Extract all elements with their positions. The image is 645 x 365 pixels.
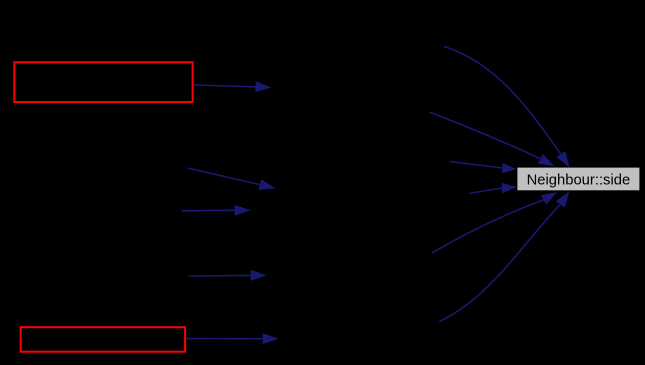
edge R5 (bottom inner curve into node bottom)	[432, 192, 557, 253]
edge L1: red box 1 -> middle node	[194, 81, 272, 92]
svg-text:Neighbour::side: Neighbour::side	[527, 172, 631, 188]
edge L2	[188, 168, 276, 190]
node box (red, truncated caller, bottom-left)	[21, 327, 185, 352]
edge R4 (short straight into node left edge)	[469, 183, 517, 194]
node Neighbour::side (grey filled)	[517, 168, 639, 191]
edge R3 (straight into node left edge)	[450, 162, 517, 174]
node box (red, truncated caller, top-left)	[14, 62, 192, 102]
edge L5: red box 2 -> middle node	[186, 333, 278, 344]
edge R1 (top outer curve into node top)	[444, 47, 570, 168]
edge L4	[189, 270, 267, 281]
edge R2 (top inner curve into node top)	[430, 112, 555, 166]
edge L3	[181, 205, 250, 216]
edge R6 (bottom outer curve into node bottom)	[439, 191, 569, 321]
